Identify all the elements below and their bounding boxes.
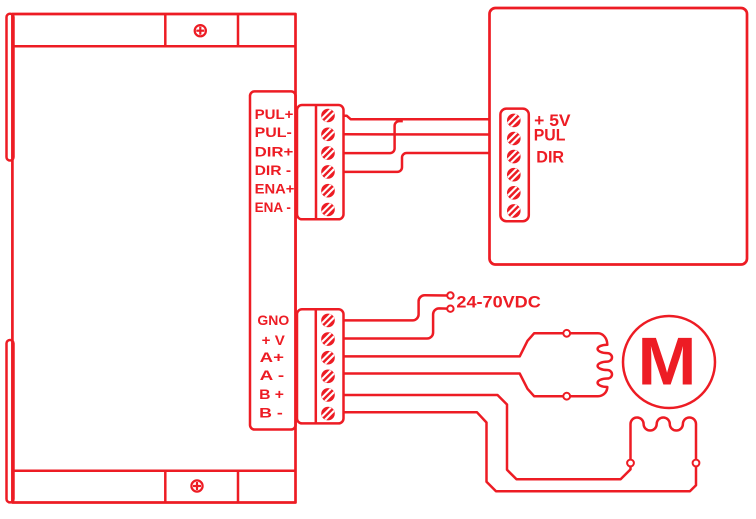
driver top band line (12, 45, 295, 48)
terminal block upper divider (315, 105, 318, 219)
panel screw top (195, 25, 206, 36)
svg-text:A+: A+ (260, 349, 284, 365)
wire B+ routing (344, 395, 631, 479)
svg-text:ENA+: ENA+ (255, 181, 295, 197)
driver bottom band line (12, 469, 295, 472)
svg-text:M: M (638, 324, 697, 400)
svg-text:PUL-: PUL- (255, 124, 293, 140)
wire A+ lead (344, 333, 564, 356)
driver top band divider 1 (164, 14, 167, 46)
supply terminal circle 2 (447, 306, 453, 312)
panel screw bottom (191, 480, 202, 491)
wire GNO to supply terminal (344, 295, 448, 320)
terminal block lower (297, 309, 344, 423)
wire PUL- to PUL (344, 133, 490, 136)
driver bottom band divider 1 (164, 471, 167, 503)
svg-text:B +: B + (259, 386, 284, 402)
svg-text:24-70VDC: 24-70VDC (456, 293, 540, 312)
terminal block upper (297, 105, 344, 219)
driver upper screws (321, 108, 336, 123)
motor terminal A- (563, 393, 570, 400)
controller screws (507, 113, 522, 128)
motor terminal B+ (627, 460, 634, 467)
svg-text:+ V: + V (262, 332, 286, 348)
wire A- lead (344, 374, 564, 397)
wire +V to supply terminal (344, 308, 448, 338)
din rail tab top (7, 14, 14, 161)
phase B winding coil (631, 417, 697, 430)
svg-text:GNO: GNO (257, 312, 289, 328)
wire PUL+ to +5V (344, 116, 490, 119)
motor terminal B- (693, 460, 700, 467)
terminal block lower divider (315, 309, 318, 423)
motor circle (623, 316, 715, 408)
controller box (490, 8, 748, 265)
svg-text:B -: B - (259, 405, 283, 421)
svg-text:PUL+: PUL+ (255, 106, 294, 122)
svg-text:DIR: DIR (536, 147, 564, 166)
driver lower screws (321, 313, 336, 328)
svg-text:DIR+: DIR+ (255, 143, 294, 159)
wire DIR- to DIR (344, 153, 490, 172)
driver bottom band divider 2 (237, 471, 240, 503)
wire B- routing (344, 412, 697, 491)
driver body outline (12, 14, 295, 503)
driver top band divider 2 (237, 14, 240, 46)
phase A winding coil (598, 333, 612, 396)
supply terminal circle 1 (447, 292, 453, 298)
din rail tab bottom (7, 340, 14, 502)
wire B+ circle to coil (629, 424, 632, 460)
svg-text:ENA -: ENA - (255, 199, 292, 215)
label housing box (250, 91, 296, 429)
wire DIR+ up to +5V line (344, 121, 403, 153)
svg-text:PUL: PUL (534, 125, 566, 144)
motor terminal A+ (563, 330, 570, 337)
svg-text:A -: A - (260, 367, 285, 383)
controller terminal block (500, 109, 528, 222)
svg-text:DIR -: DIR - (255, 162, 292, 178)
wire B- circle to coil (695, 424, 698, 460)
wire A+ circle to coil (570, 332, 598, 335)
wire A- circle to coil (570, 395, 598, 398)
